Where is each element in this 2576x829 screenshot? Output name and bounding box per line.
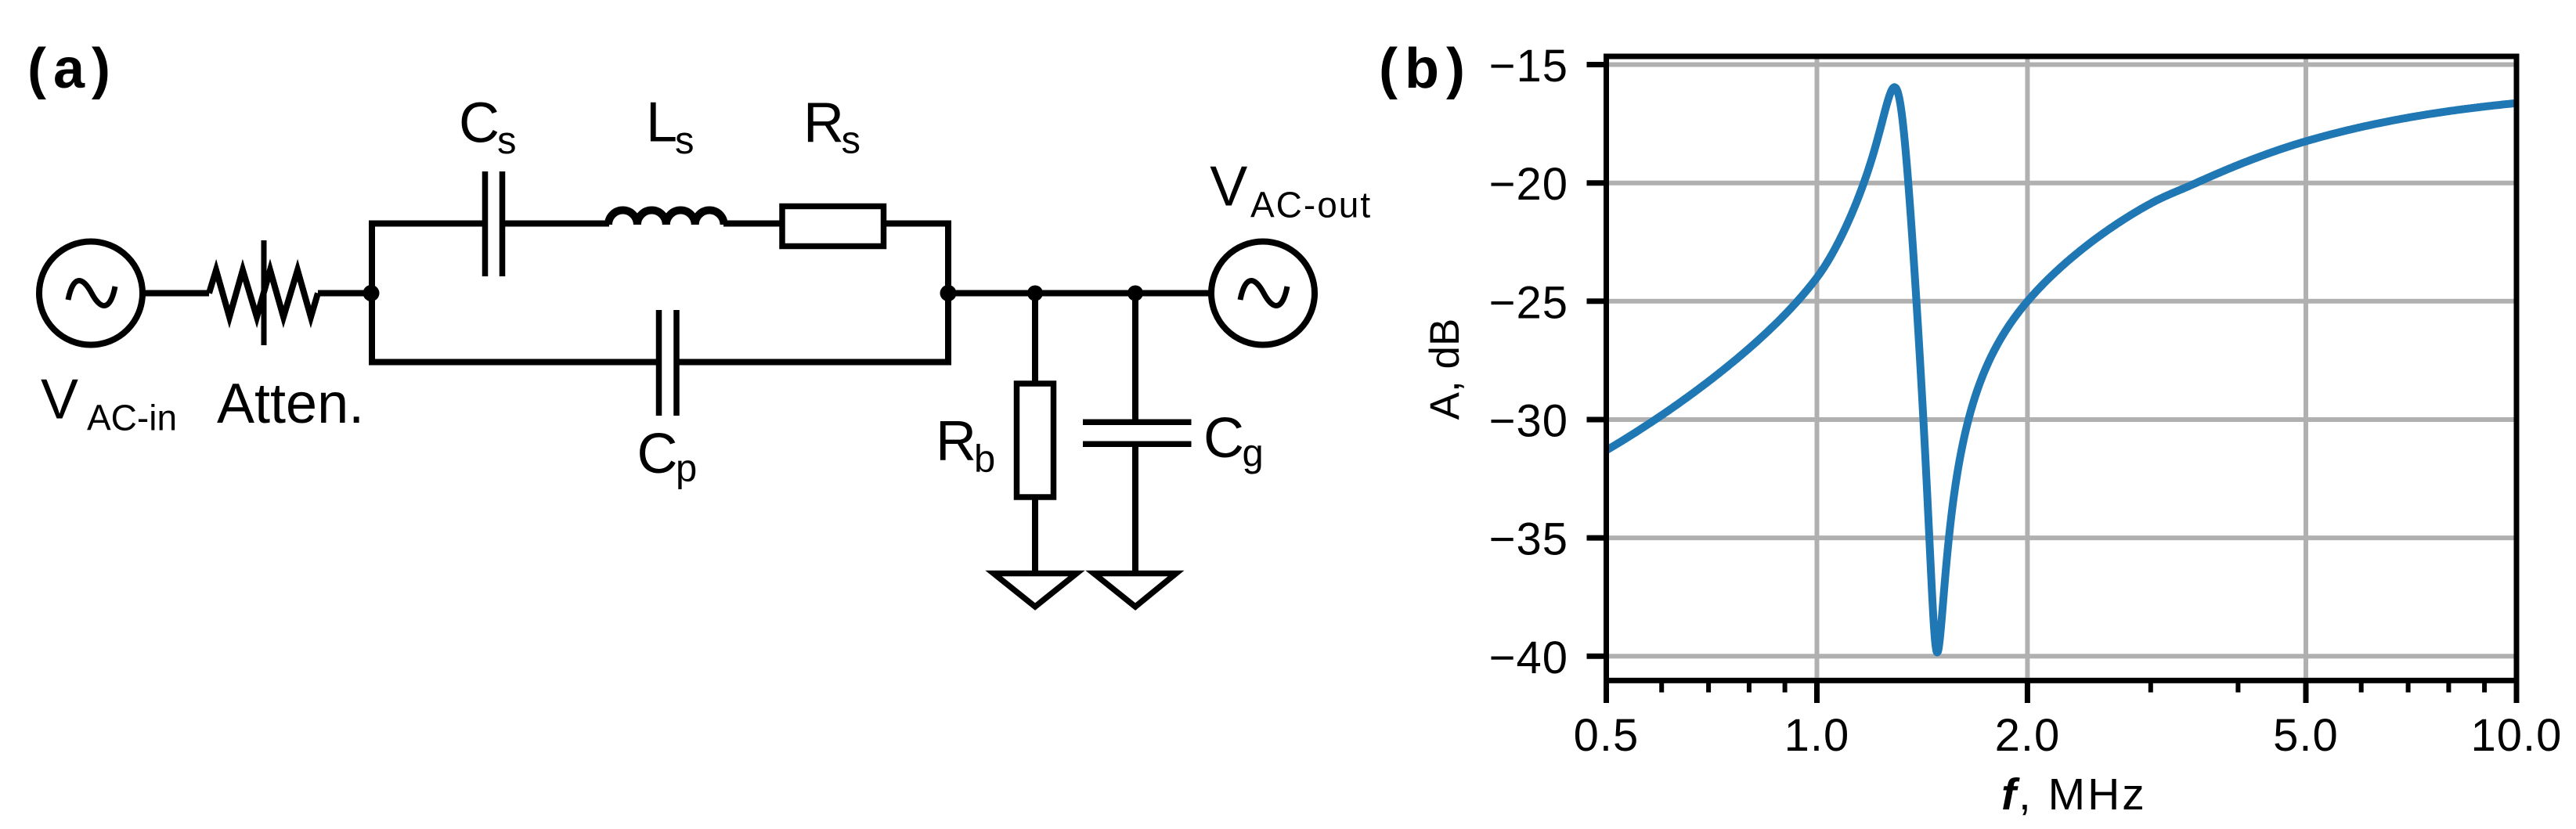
node 2 junction dot — [940, 285, 957, 301]
svg-text:10.0: 10.0 — [2471, 710, 2563, 761]
svg-text:C: C — [1203, 407, 1244, 470]
wire Cs to Ls — [505, 221, 609, 227]
node 4 junction dot — [1127, 286, 1143, 301]
bottom rail wire to Cp — [369, 359, 656, 366]
label V_AC-out — [1210, 155, 1372, 225]
wire node 3 down to Rb — [1032, 294, 1038, 384]
resistor Rb — [1017, 384, 1054, 497]
svg-text:R: R — [803, 92, 844, 154]
svg-text:AC-out: AC-out — [1250, 184, 1372, 225]
curve A(f) — [1607, 87, 2517, 652]
svg-text:−30: −30 — [1489, 396, 1568, 447]
wire attenuator to node 1 — [318, 290, 372, 297]
svg-text:p: p — [676, 448, 697, 490]
svg-text:−15: −15 — [1489, 41, 1568, 92]
x minor ticks — [1661, 680, 2484, 692]
output wire — [948, 290, 1211, 297]
svg-text:Atten.: Atten. — [217, 373, 364, 435]
AC source V_AC-in — [39, 242, 143, 345]
capacitor Cg — [1083, 422, 1192, 444]
capacitor Cs — [485, 171, 503, 276]
attenuator adjustment stroke — [262, 240, 267, 345]
inductor Ls — [608, 211, 724, 225]
wire source to attenuator — [143, 290, 209, 297]
wire Cg to ground — [1132, 444, 1138, 573]
svg-text:s: s — [842, 120, 861, 162]
label L_s — [646, 91, 695, 162]
label C_g — [1203, 407, 1264, 475]
svg-text:−35: −35 — [1489, 514, 1568, 565]
svg-text:s: s — [675, 120, 695, 162]
svg-text:−25: −25 — [1489, 277, 1568, 328]
svg-text:5.0: 5.0 — [2273, 710, 2339, 761]
svg-text:0.5: 0.5 — [1574, 710, 1640, 761]
svg-text:(a): (a) — [27, 38, 117, 100]
y major ticks — [1587, 65, 1604, 657]
wire Ls to Rs — [723, 221, 782, 227]
label V_AC-in — [41, 369, 177, 438]
right vertical of parallel branch — [945, 221, 951, 366]
wire node 4 down to Cg — [1132, 294, 1138, 423]
svg-text:−40: −40 — [1489, 633, 1568, 683]
svg-text:V: V — [1210, 155, 1247, 218]
svg-text:b: b — [974, 438, 995, 481]
svg-text:C: C — [459, 92, 500, 155]
ground under Rb — [994, 574, 1077, 607]
left vertical of parallel branch — [369, 221, 375, 366]
svg-text:2.0: 2.0 — [1995, 710, 2061, 761]
label R_s — [803, 92, 860, 162]
AC source V_AC-out — [1211, 242, 1315, 345]
svg-text:V: V — [41, 369, 78, 431]
wire Rb to ground — [1032, 497, 1038, 573]
axes box spines — [1607, 56, 2517, 680]
svg-text:C: C — [637, 423, 678, 485]
svg-text:R: R — [936, 410, 976, 473]
svg-text:−20: −20 — [1489, 159, 1568, 210]
svg-text:L: L — [646, 91, 677, 153]
svg-text:(b): (b) — [1379, 38, 1472, 100]
ground under Cg — [1094, 574, 1176, 607]
svg-text:f, MHz: f, MHz — [2001, 770, 2147, 820]
x tick labels — [1574, 710, 2563, 761]
label R_b — [936, 410, 995, 481]
top rail wire to Cs — [369, 221, 482, 227]
y tick labels — [1489, 41, 1568, 683]
node 1 junction dot — [363, 285, 380, 301]
capacitor Cp — [659, 310, 677, 416]
wire Rs to right vertical — [884, 221, 952, 227]
label C_p — [637, 423, 698, 490]
node 3 junction dot — [1027, 286, 1043, 301]
svg-text:s: s — [497, 120, 517, 162]
attenuator resistor (Atten.) — [209, 270, 318, 317]
label C_s — [459, 92, 517, 163]
svg-text:AC-in: AC-in — [87, 398, 177, 438]
svg-text:1.0: 1.0 — [1784, 710, 1850, 761]
gridlines — [1609, 59, 2514, 678]
svg-text:A, dB: A, dB — [1422, 319, 1468, 420]
bottom rail wire Cp to right vertical — [680, 359, 952, 366]
svg-text:g: g — [1243, 433, 1264, 475]
x major ticks — [1607, 680, 2517, 703]
resistor Rs — [782, 207, 884, 247]
